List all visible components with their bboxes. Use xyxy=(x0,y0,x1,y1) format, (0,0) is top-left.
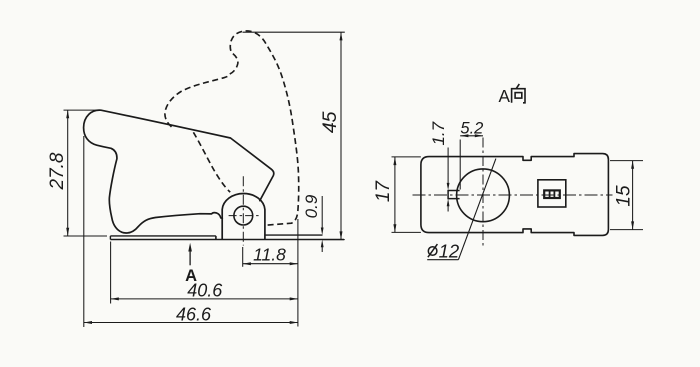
svg-text:0.9: 0.9 xyxy=(302,194,321,218)
dimension 40.6 line xyxy=(111,298,298,300)
terminal square xyxy=(538,180,566,207)
A-view vertical centerline xyxy=(482,138,484,248)
base plate step tick xyxy=(215,236,217,240)
pivot boss xyxy=(222,193,265,239)
A-view horizontal centerline xyxy=(413,194,613,196)
cover outline (open position, dashed) xyxy=(165,31,299,225)
dimension 0.9 lower arrow xyxy=(321,247,323,252)
dimension 15 extension bottom xyxy=(610,229,643,231)
svg-text:46.6: 46.6 xyxy=(176,305,212,325)
dimension 5.2 line xyxy=(460,135,483,137)
svg-text:40.6: 40.6 xyxy=(187,281,223,301)
hidden edge of open cover to pivot (dashed) xyxy=(193,132,230,192)
dimension 27.8 extension bottom xyxy=(64,235,108,237)
dimension 17 extension bottom xyxy=(392,231,421,233)
dimension 1.7 upper line and arrow xyxy=(447,148,449,184)
base plate bottom edge xyxy=(110,239,344,241)
dimension 27.8 line xyxy=(67,110,69,236)
pivot vertical centerline xyxy=(242,176,244,245)
dimension 45 line xyxy=(340,32,342,239)
svg-text:11.8: 11.8 xyxy=(253,244,286,264)
svg-text:15: 15 xyxy=(613,185,634,207)
svg-text:27.8: 27.8 xyxy=(47,152,68,190)
dimension 46.6 line xyxy=(84,322,298,324)
view arrow A xyxy=(189,248,191,266)
dimension 15 line xyxy=(632,161,634,230)
dimension 46.6 left extension xyxy=(83,136,85,327)
dimension 11.8 right extension xyxy=(297,219,299,327)
dimension 11.8 left extension (pivot centerline) xyxy=(242,247,244,267)
diameter symbol xyxy=(428,247,437,256)
dimension 1.7 lower line and arrow xyxy=(447,206,449,212)
svg-text:12: 12 xyxy=(439,241,460,262)
dimension 45 extension top xyxy=(243,31,345,33)
base plate left edge tick xyxy=(109,236,111,240)
dimension 0.9 upper arrow xyxy=(321,196,323,228)
svg-text:5.2: 5.2 xyxy=(460,119,483,137)
dimension 27.8 extension top xyxy=(64,109,99,111)
dimension 11.8 line xyxy=(243,263,298,265)
dimension 17 extension top xyxy=(392,156,421,158)
dimension 17 line xyxy=(394,157,396,233)
leader underline xyxy=(427,259,458,261)
dimension 40.6 left extension xyxy=(110,242,112,304)
hanzi xiang (direction) drawn xyxy=(512,84,525,103)
dimension 15 extension top xyxy=(610,160,643,162)
pivot hole xyxy=(234,206,253,225)
leader line for diameter 12 xyxy=(458,159,496,260)
terminal inner detail xyxy=(544,190,560,198)
base plate top edge left segment xyxy=(110,235,215,237)
svg-text:17: 17 xyxy=(373,180,394,203)
svg-text:1.7: 1.7 xyxy=(429,121,448,145)
svg-text:A: A xyxy=(498,86,510,106)
switch hole diameter 12 xyxy=(457,169,510,222)
A-view plate outline xyxy=(421,154,609,236)
svg-text:45: 45 xyxy=(319,111,341,133)
pivot horizontal centerline xyxy=(229,215,259,217)
keyway slot xyxy=(448,191,460,199)
dimension 45 extension bottom xyxy=(322,239,345,241)
base plate top edge right segment xyxy=(265,234,323,236)
dimension 5.2 extension left xyxy=(459,140,461,190)
cover outline (closed position, solid) xyxy=(84,110,274,233)
